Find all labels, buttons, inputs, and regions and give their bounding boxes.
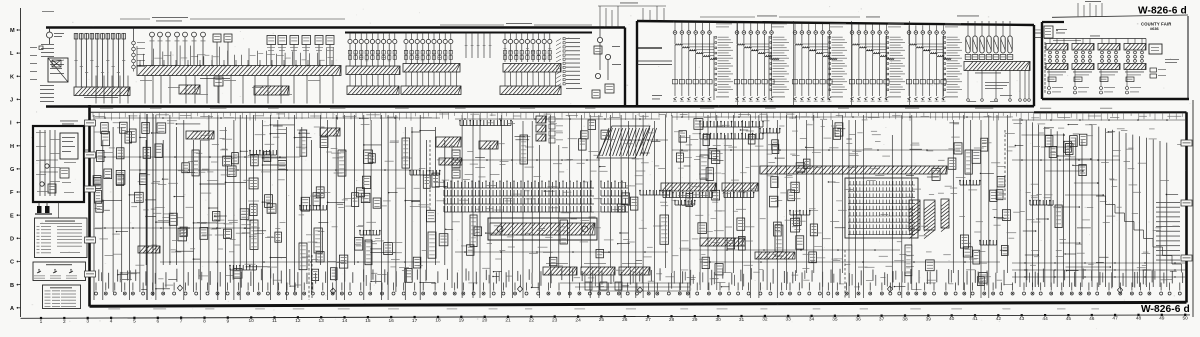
- svg-text:48: 48: [1136, 316, 1142, 322]
- lamp group 4 terminal label column: [886, 36, 905, 100]
- lamp group 1 bottom contact symbols: [673, 97, 712, 102]
- coin relay label block: [39, 44, 54, 57]
- bottom connector symbol row with vertical labels: [95, 268, 1184, 295]
- svg-text:K: K: [10, 74, 14, 80]
- right zone annotation smudges: [1013, 123, 1185, 280]
- svg-text:35: 35: [832, 317, 838, 323]
- control stack lower wires and notes: [967, 71, 1031, 102]
- vertical hatched strip 2: [924, 200, 935, 239]
- svg-text:J: J: [10, 98, 13, 104]
- svg-text:31: 31: [739, 317, 745, 323]
- interpanel wires top right gap: [1034, 30, 1042, 38]
- riser wires to playfield top gap: [598, 3, 666, 28]
- right-center annotation smudges: [672, 117, 1016, 290]
- svg-text:1: 1: [40, 319, 43, 325]
- credit unit group 1 caption: [1047, 72, 1066, 76]
- svg-text:27: 27: [645, 317, 651, 323]
- svg-text:24: 24: [575, 317, 581, 323]
- terminal strip caption: [84, 96, 118, 99]
- caption county fair cabinet: [866, 16, 880, 19]
- lower relay bank hatched left: [179, 85, 200, 94]
- main panel long horizontal bus wires: [95, 116, 1185, 263]
- lamp group 2 intermediate contact boxes row: [734, 80, 774, 84]
- tall coil boxes scattered main panel: [192, 130, 1062, 276]
- replay counter annotation: [1165, 59, 1179, 63]
- control stack caption: [975, 72, 1001, 75]
- svg-text:45: 45: [1066, 316, 1072, 322]
- score unit 2 contact box stacks: [404, 51, 452, 60]
- power supply box border: [33, 126, 84, 202]
- group separator wire 2: [793, 21, 795, 106]
- svg-text:E: E: [10, 213, 14, 219]
- right section relay circles topleft panel: [595, 28, 610, 81]
- coin chute box top left: [1044, 26, 1053, 38]
- control stack terminal strip hatched: [964, 62, 1030, 71]
- svg-text:6: 6: [156, 319, 159, 325]
- abbreviations legend box: [43, 285, 81, 309]
- lamp driver group 5 circles and resistor squiggles: [907, 25, 951, 96]
- svg-text:14: 14: [342, 318, 348, 324]
- svg-text:39: 39: [926, 316, 932, 322]
- start relay circle symbol: [47, 28, 65, 45]
- credit unit group 4 upper hatched bar: [1124, 44, 1146, 51]
- lamp group 4 intermediate contact boxes row: [849, 80, 889, 84]
- score unit 1 contact box stacks: [348, 51, 396, 60]
- bus junction dots: [139, 60, 333, 66]
- credit unit group 3 caption: [1099, 72, 1118, 76]
- svg-text:25: 25: [599, 317, 605, 323]
- score unit 3 contact box stacks: [503, 51, 551, 60]
- lower bank cascade wiring: [560, 278, 690, 291]
- extra annotations right-center mesh: [671, 117, 842, 279]
- main terminal bus hatched band: [137, 66, 341, 76]
- left relay annotations: [30, 47, 54, 102]
- coin chute annotation: [1056, 29, 1067, 33]
- lamp driver group 1 circles and resistor squiggles: [673, 22, 717, 96]
- hanging wire stubs under main panel top border: [93, 113, 1182, 121]
- score motor contact rows upper: [443, 181, 628, 197]
- middle panel bottom left annotation: [652, 95, 662, 99]
- center contact bank row A: [459, 120, 512, 126]
- right zone step connections: [1021, 134, 1111, 268]
- line cord plug symbol: [35, 202, 52, 214]
- staircase step wires bottom right: [1096, 196, 1182, 273]
- sheet right border line: [1192, 100, 1194, 317]
- center hatched square column: [536, 116, 546, 141]
- right-center vertical wires: [672, 115, 1007, 298]
- center small box column: [452, 150, 460, 178]
- lamp group 3 bottom contact symbols: [793, 97, 832, 102]
- svg-text:19: 19: [459, 318, 465, 324]
- main panel top caption band extra: [95, 114, 1181, 119]
- svg-text:36: 36: [856, 317, 862, 323]
- svg-text:M: M: [10, 28, 15, 34]
- relay bank hatched with contacts left-center A: [661, 183, 716, 198]
- center hatched bar A: [436, 137, 461, 147]
- svg-text:32: 32: [762, 317, 768, 323]
- sheet bottom ruler line: [21, 315, 1191, 318]
- credit unit group 1 bottom terminals: [1048, 70, 1064, 95]
- relay pair boxes: [213, 34, 232, 65]
- center hatched bar C: [439, 158, 462, 165]
- control stack contact boxes: [965, 55, 1013, 60]
- group separator wire 3: [851, 21, 853, 106]
- power transformer symbol: [60, 133, 78, 159]
- svg-text:50: 50: [1183, 316, 1189, 322]
- svg-text:41: 41: [972, 316, 978, 322]
- svg-text:37: 37: [879, 316, 885, 322]
- credit unit group 4 caption: [1125, 72, 1144, 76]
- left zone horizontal jogs: [102, 123, 446, 290]
- lower relay bank hatched mid: [254, 86, 289, 95]
- svg-text:21: 21: [505, 318, 511, 324]
- right section boxes topleft panel: [592, 46, 621, 98]
- top-right feed wire: [1044, 36, 1146, 39]
- control stack plunger capsules: [966, 21, 1012, 53]
- left zone hatched bar 1: [186, 131, 214, 139]
- credit unit group 4 bottom terminals: [1126, 70, 1142, 95]
- svg-text:11: 11: [272, 318, 277, 324]
- svg-text:30: 30: [716, 317, 722, 323]
- power box extra detail: [36, 132, 76, 193]
- player score unit group 2: [404, 33, 453, 65]
- lower wiring drops topleft panel: [96, 76, 333, 104]
- score unit 1 coil strip hatched: [346, 66, 400, 75]
- credit unit group 1 lower hatched bar: [1046, 64, 1068, 70]
- lamp group 1 intermediate contact boxes row: [672, 80, 712, 84]
- svg-text:33: 33: [786, 317, 792, 323]
- credit groups caption line: [1053, 39, 1081, 42]
- bus drop wires with labels top-left panel: [137, 46, 333, 66]
- score motor lower bank hatched 1: [543, 267, 577, 275]
- interconnect wires power box to main panel: [59, 150, 90, 218]
- svg-text:B: B: [10, 283, 14, 289]
- credit unit group 3 bottom terminals: [1100, 70, 1116, 95]
- relay contact grid large: [845, 178, 918, 238]
- score motor lower bank hatched 2: [581, 267, 615, 275]
- top-right panel right border: [1187, 16, 1189, 99]
- credit unit group 4 contact circles: [1127, 39, 1144, 63]
- right-center scattered boxes: [686, 119, 1011, 286]
- group separator wire 1: [737, 21, 739, 106]
- svg-text:38: 38: [902, 316, 908, 322]
- medium vertical bus pair left zone: [147, 114, 153, 300]
- svg-text:G: G: [10, 167, 14, 173]
- group separator wire 4: [909, 21, 911, 106]
- terminal code boxes on main panel left border: [85, 120, 96, 277]
- svg-text:26: 26: [622, 317, 628, 323]
- credit unit group 4 lower hatched bar: [1124, 64, 1146, 70]
- score unit 2 lower strip hatched: [401, 86, 461, 95]
- right edge label stack: [1156, 202, 1180, 261]
- lamp group 3 terminal label column: [828, 36, 847, 100]
- svg-text:46: 46: [1089, 316, 1095, 322]
- svg-text:7: 7: [180, 318, 183, 324]
- scattered mini contact banks main panel: [229, 128, 1053, 270]
- cable duct stub: [637, 47, 662, 49]
- player score unit group 3: [503, 33, 552, 63]
- svg-text:L: L: [10, 51, 14, 57]
- player score unit group 1: [348, 33, 397, 67]
- svg-text:A: A: [10, 306, 14, 312]
- svg-text:D: D: [10, 236, 14, 242]
- lamp driver group 3 circles and resistor squiggles: [793, 24, 837, 96]
- svg-text:44: 44: [1042, 316, 1048, 322]
- bus caption: [200, 77, 230, 80]
- svg-text:5: 5: [133, 319, 136, 325]
- score unit 2 drop wires: [406, 72, 456, 86]
- lamp group 5 terminal label column: [943, 36, 962, 100]
- caption pulse hot line: [440, 23, 592, 25]
- svg-text:40: 40: [949, 316, 955, 322]
- switch stack terminal strip hatched: [74, 87, 130, 96]
- main panel top caption labels: [100, 107, 1112, 110]
- svg-text:15: 15: [365, 318, 371, 324]
- labels under relay boxes top-left panel: [267, 47, 334, 51]
- credit unit group 3 contact circles: [1101, 39, 1118, 63]
- caption switch-on-relays above top-left panel: [120, 17, 345, 21]
- lower bank captions: [546, 262, 642, 265]
- wire color code legend box: [35, 218, 88, 258]
- short rung wires across main panel: [104, 118, 1178, 290]
- svg-text:12: 12: [295, 318, 301, 324]
- lamp group 2 terminal label column: [769, 36, 789, 100]
- replay counter box right: [1146, 39, 1162, 55]
- main panel left zone vertical wires: [94, 115, 445, 300]
- credit unit group 2 caption: [1073, 72, 1092, 76]
- credit unit group 3 value box: [1100, 77, 1108, 82]
- svg-text:9: 9: [226, 318, 229, 324]
- right-center hatched bar lower 2: [755, 252, 795, 259]
- score unit 3 coil strip hatched: [503, 64, 561, 73]
- riser wires top right gap: [1078, 1, 1102, 16]
- main panel top right heavy segment: [1034, 111, 1187, 113]
- credit unit group 3 lower hatched bar: [1098, 64, 1120, 70]
- lamp driver group 4 circles and resistor squiggles: [850, 24, 894, 96]
- svg-text:#636: #636: [1150, 26, 1159, 31]
- left zone relay coil boxes: [93, 123, 448, 282]
- credit unit group 2 bottom terminals: [1074, 70, 1090, 95]
- score motor lower bank hatched 3: [619, 267, 650, 275]
- svg-text:4: 4: [110, 319, 113, 325]
- left zone hatched bar 3: [138, 246, 160, 253]
- vertical hatched strip 3: [941, 199, 949, 232]
- credit unit group 1 value box: [1048, 77, 1056, 82]
- lamp group 2 bottom contact symbols: [735, 97, 774, 102]
- top row lamp circles: [150, 32, 206, 65]
- svg-text:8: 8: [203, 318, 206, 324]
- svg-text:13: 13: [319, 318, 325, 324]
- score unit 2 coil strip hatched: [403, 64, 460, 73]
- dashed tester wires: [309, 130, 1005, 300]
- svg-text:49: 49: [1159, 316, 1165, 322]
- top-left panel border top: [46, 26, 625, 28]
- top panels merged bottom border: [46, 105, 1034, 108]
- top-middle panel right border: [1033, 25, 1035, 106]
- lamp driver group 2 circles and resistor squiggles: [735, 23, 779, 96]
- left zone hatched bar 2: [320, 128, 340, 136]
- village turner unit label column: [556, 38, 582, 89]
- credit unit group 3 upper hatched bar: [1098, 44, 1120, 51]
- switch symbols legend box: [33, 262, 86, 281]
- center hatched bar B: [479, 141, 498, 149]
- svg-text:47: 47: [1112, 316, 1118, 322]
- sheet corner reference label: [42, 10, 54, 13]
- sheet left border line: [20, 8, 22, 317]
- score motor cam hatched patch: [597, 126, 657, 158]
- score drum mid labels: [465, 33, 492, 59]
- row letter labels M-A with tick marks: [10, 28, 21, 312]
- svg-text:43: 43: [1019, 316, 1025, 322]
- lamp group 5 intermediate contact boxes row: [906, 80, 946, 84]
- main panel bottom border: [90, 302, 1187, 306]
- diamond junction symbols: [177, 285, 1122, 294]
- left zone annotation smudges: [93, 120, 449, 285]
- credit unit group 4 value box: [1126, 77, 1134, 82]
- lamp group 1 terminal label column: [714, 36, 733, 100]
- pulse bus heavy line: [345, 32, 592, 34]
- svg-text:42: 42: [996, 316, 1002, 322]
- replay counter lower boxes: [1150, 68, 1166, 78]
- extra relay boxes right-center mesh: [676, 131, 810, 249]
- score unit 3 lower strip hatched: [500, 86, 561, 95]
- credit unit group 2 contact circles: [1075, 39, 1092, 63]
- svg-text:17: 17: [412, 318, 418, 324]
- lower annotation smudges: [140, 80, 320, 95]
- reset relay boxes row: [267, 36, 311, 66]
- center annotation smudges: [452, 122, 674, 287]
- svg-text:W-826-6 d: W-826-6 d: [1141, 304, 1190, 315]
- main panel left border: [88, 105, 91, 307]
- svg-text:23: 23: [552, 317, 558, 323]
- power box caption: [60, 121, 78, 125]
- right zone long vertical wires bundle B: [1092, 125, 1167, 287]
- right zone long vertical wires bundle A: [1020, 118, 1082, 287]
- cable duct vertical border: [636, 21, 638, 107]
- score unit 1 drop wires: [350, 75, 395, 87]
- credit unit group 1 contact circles: [1049, 39, 1066, 63]
- lamp group column captions: [716, 24, 961, 28]
- credit unit group 2 lower hatched bar: [1072, 64, 1094, 70]
- lock relay box with crossed contacts: [48, 58, 68, 82]
- lamp group 3 intermediate contact boxes row: [792, 80, 832, 84]
- score motor body rectangle with hatched band: [488, 218, 597, 240]
- labels below main panel bottom border: [108, 308, 1158, 311]
- main panel right border: [1185, 112, 1188, 302]
- score unit 3 drop wires: [505, 72, 555, 86]
- svg-text:F: F: [10, 190, 14, 196]
- duct gap horizontal wires: [637, 61, 672, 65]
- svg-text:28: 28: [669, 317, 675, 323]
- score motor contact rows lower: [444, 198, 628, 212]
- credit unit group 2 upper hatched bar: [1072, 44, 1094, 51]
- svg-text:16: 16: [389, 318, 395, 324]
- lamp group 4 bottom contact symbols: [850, 97, 889, 102]
- top-right panel bottom border: [1042, 98, 1189, 100]
- score unit 1 lower strip hatched: [347, 86, 399, 95]
- svg-text:10: 10: [249, 318, 255, 324]
- right-center contact bank rows: [699, 121, 764, 139]
- center zone vertical wires: [452, 115, 666, 298]
- bottom right horizontal bus lines: [1012, 262, 1186, 277]
- right-center hatched bar lower 1: [700, 238, 745, 246]
- long hatched band right-center: [760, 166, 947, 174]
- top-right panel top border: [1042, 21, 1064, 23]
- lower relay box mid: [214, 77, 223, 103]
- svg-text:29: 29: [692, 317, 698, 323]
- svg-text:3: 3: [86, 319, 89, 325]
- top-middle panel top border: [637, 21, 1034, 25]
- credit unit group 2 value box: [1074, 77, 1082, 82]
- left relay cluster dense: [94, 122, 151, 212]
- caption playfield cable: [700, 16, 860, 18]
- svg-text:2: 2: [63, 319, 66, 325]
- right zone relay cluster: [1045, 134, 1087, 175]
- relay bank hatched with contacts left-center B: [722, 183, 758, 198]
- svg-text:C: C: [10, 260, 14, 266]
- vertical hatched strip 1: [909, 200, 920, 239]
- terminal code boxes on main panel right border: [1181, 140, 1192, 261]
- svg-text:18: 18: [435, 318, 441, 324]
- top-right panel left border: [1041, 22, 1043, 99]
- power box wires: [37, 130, 71, 196]
- ruler tick numbers 1-50: [40, 314, 1189, 325]
- svg-text:20: 20: [482, 318, 488, 324]
- switch stack wire bank: [74, 33, 125, 87]
- hold relay boxes pair right: [315, 36, 334, 66]
- relay coil column left-mid: [132, 28, 145, 72]
- vertical tag strip on left border: [1045, 42, 1046, 93]
- credit unit group 1 upper hatched bar: [1046, 44, 1068, 51]
- lamp group 5 bottom contact symbols: [907, 97, 946, 102]
- center relay list boxes: [549, 117, 563, 143]
- top-left panel right border: [624, 28, 626, 107]
- svg-text:22: 22: [529, 317, 535, 323]
- svg-text:34: 34: [809, 317, 815, 323]
- caption insert panel: [957, 15, 979, 18]
- svg-text:H: H: [10, 144, 14, 150]
- main panel top inner line: [90, 111, 1187, 113]
- center scattered boxes: [467, 120, 638, 266]
